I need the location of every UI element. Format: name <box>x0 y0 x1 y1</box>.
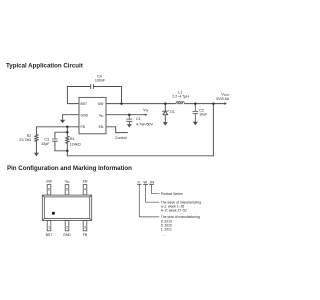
wire BST to top rail <box>67 87 90 104</box>
svg-text:5V/0.6A: 5V/0.6A <box>216 97 229 101</box>
svg-text:Pin Configuration and Marking: Pin Configuration and Marking Informatio… <box>7 165 132 172</box>
wire FB node down <box>66 127 68 136</box>
diode D1 wire <box>164 104 166 123</box>
node FB junction <box>66 126 69 129</box>
svg-text:100nF: 100nF <box>95 79 106 83</box>
svg-text:2: 2 <box>66 225 68 229</box>
svg-text:VIN: VIN <box>99 113 104 118</box>
resistor R1 <box>66 136 69 151</box>
capacitor C3 <box>52 139 58 141</box>
callout X -> year <box>139 185 159 217</box>
pin labels bottom <box>46 233 88 237</box>
svg-text:1: 2021: 1: 2021 <box>161 228 172 232</box>
wire C3 branch <box>55 132 67 151</box>
node SW/C4 junction <box>120 102 123 105</box>
svg-text:D1: D1 <box>170 110 175 114</box>
svg-text:124kΩ: 124kΩ <box>70 143 81 147</box>
label VOUT <box>216 93 229 102</box>
capacitor C4 <box>91 84 94 89</box>
svg-text:VIN: VIN <box>143 108 148 113</box>
svg-text:FB: FB <box>83 233 88 237</box>
node R1/C3 bottom junction <box>66 150 69 153</box>
callout JN -> Product Series <box>152 185 160 194</box>
wire EN to Control <box>106 127 128 133</box>
svg-text:Product Series: Product Series <box>161 192 183 196</box>
svg-text:SW: SW <box>46 180 52 184</box>
ground R2 <box>34 153 39 156</box>
wire top rail C4 to SW node <box>93 87 121 104</box>
svg-text:...: ... <box>163 233 166 237</box>
label L1 <box>172 90 189 98</box>
marking underlines <box>137 183 154 185</box>
ground C1 <box>127 124 132 127</box>
svg-text:Control: Control <box>115 136 127 140</box>
label R1 <box>70 137 81 147</box>
svg-text:FB: FB <box>81 125 86 129</box>
svg-text:1: 1 <box>48 225 50 229</box>
label R2 <box>19 134 31 142</box>
inductor L1 <box>176 102 184 105</box>
svg-text:VIN: VIN <box>65 180 70 185</box>
node VOUT junction <box>212 102 215 105</box>
svg-text:GND: GND <box>81 113 89 117</box>
svg-text:5: 5 <box>66 187 68 191</box>
marking text: week <box>161 200 201 212</box>
diode D1 symbol <box>162 110 169 115</box>
svg-text:R2: R2 <box>27 134 32 138</box>
node D1 junction <box>164 102 167 105</box>
svg-text:3: 3 <box>84 225 86 229</box>
svg-text:10uF: 10uF <box>199 112 208 116</box>
resistor R2 <box>35 127 38 153</box>
ground D1 <box>163 122 168 125</box>
pin numbers bottom <box>48 225 86 229</box>
marking text: year <box>161 215 200 237</box>
terminal VOUT arrow <box>224 102 227 105</box>
marking code X W JN <box>137 180 154 185</box>
svg-text:6: 6 <box>48 187 50 191</box>
svg-text:2.2~4.7µH: 2.2~4.7µH <box>172 94 189 98</box>
callout W -> week <box>146 185 160 202</box>
IC U1 (regulator) <box>79 97 106 133</box>
svg-text:4: 4 <box>84 187 86 191</box>
svg-text:A~Z: week 27~52: A~Z: week 27~52 <box>161 209 187 213</box>
svg-text:BST: BST <box>46 233 54 237</box>
svg-text:C1: C1 <box>136 117 141 121</box>
wire feedback bottom rail <box>67 104 213 156</box>
pin labels top <box>46 180 88 185</box>
wire FB line <box>36 126 79 128</box>
svg-text:GND: GND <box>63 233 71 237</box>
label C4 <box>95 75 106 83</box>
svg-text:23.7kΩ: 23.7kΩ <box>19 138 31 142</box>
svg-text:4.7uF/50V: 4.7uF/50V <box>136 122 154 126</box>
pin 1 marker dot <box>52 212 55 215</box>
label C1 <box>136 117 154 126</box>
svg-text:EN: EN <box>99 125 104 129</box>
package SOT-23-6 body <box>42 195 91 220</box>
ground GND pin <box>60 120 65 123</box>
label C3 <box>41 137 50 146</box>
capacitor C2 <box>193 104 199 122</box>
package leads top (pins 6,5,4) <box>47 185 87 195</box>
node C1 junction <box>128 113 131 116</box>
svg-text:R1: R1 <box>70 137 75 141</box>
svg-text:BST: BST <box>81 102 88 106</box>
wire GND pin <box>63 115 79 120</box>
marking callout lines <box>139 185 159 217</box>
package leads bottom (pins 1,2,3) <box>47 221 87 231</box>
label C2 <box>199 108 208 116</box>
svg-text:EN: EN <box>83 180 88 184</box>
svg-text:X: X <box>137 180 140 185</box>
svg-text:33pF: 33pF <box>41 142 50 146</box>
svg-text:W: W <box>143 180 147 185</box>
svg-text:JN: JN <box>149 180 154 185</box>
wire VIN line <box>106 114 145 116</box>
junction nodes <box>66 102 215 152</box>
node C3 branch junction <box>66 131 69 134</box>
ground C2 <box>193 122 198 125</box>
svg-text:C3: C3 <box>44 137 49 141</box>
node C2 junction <box>194 102 197 105</box>
pin numbers top <box>48 187 86 191</box>
wire SW output line <box>106 103 225 105</box>
terminal VIN arrow <box>145 114 148 116</box>
svg-text:Typical Application Circuit: Typical Application Circuit <box>6 63 83 70</box>
svg-text:SW: SW <box>98 102 104 106</box>
capacitor C1 <box>126 115 132 125</box>
